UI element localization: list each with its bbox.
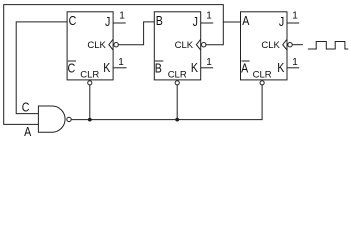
flip-flop A CLR bubble [260, 81, 264, 85]
wire B clock from A-output rail down to B CLK bubble [206, 22, 223, 45]
clock input square wave symbol [308, 42, 348, 50]
svg-text:J: J [105, 14, 110, 29]
flip-flop B CLK bubble [202, 43, 206, 47]
NAND gate body [38, 106, 65, 132]
wire C output to NAND input C [16, 22, 67, 114]
junction dot at B CLR [175, 118, 179, 122]
svg-text:1: 1 [206, 57, 212, 68]
svg-text:C: C [22, 100, 30, 115]
wire top rail from A output to NAND input A [4, 5, 241, 125]
wire J stub tied to 1 on flip-flop C [113, 22, 126, 24]
flip-flop B box [154, 12, 200, 80]
wire B CLR drop [176, 85, 178, 120]
overline of A-bar [241, 60, 249, 62]
flip-flop C CLR bubble [88, 81, 92, 85]
svg-text:A: A [24, 124, 31, 139]
wire clear line from NAND output to CLR bubbles [71, 85, 262, 120]
overline of C-bar [68, 60, 76, 62]
flip-flop A box [241, 12, 288, 80]
flip-flop C box [67, 12, 113, 80]
NAND gate output bubble [67, 117, 71, 121]
flip-flop A clock edge triangle [283, 39, 287, 50]
wire A CLK input stub [292, 44, 303, 46]
svg-text:C: C [69, 13, 77, 28]
svg-text:J: J [193, 14, 198, 29]
wire K stub tied to 1 on flip-flop A [287, 67, 299, 69]
svg-text:A: A [242, 13, 249, 28]
svg-text:CLK: CLK [87, 40, 106, 51]
svg-text:1: 1 [206, 11, 212, 22]
overline of B-bar [155, 60, 163, 62]
flip-flop C CLK bubble [114, 43, 118, 47]
wire J stub tied to 1 on flip-flop A [287, 22, 299, 24]
svg-text:CLR: CLR [168, 69, 187, 80]
svg-text:CLR: CLR [253, 69, 272, 80]
svg-text:1: 1 [119, 11, 125, 22]
svg-text:K: K [103, 60, 110, 75]
flip-flop A CLK bubble [288, 43, 292, 47]
svg-text:B: B [156, 13, 163, 28]
svg-text:A: A [241, 61, 248, 76]
svg-text:K: K [277, 60, 284, 75]
wire C CLR drop [89, 85, 91, 120]
flip-flop B clock edge triangle [196, 39, 200, 50]
svg-text:CLR: CLR [80, 69, 99, 80]
svg-text:1: 1 [292, 11, 298, 22]
svg-text:K: K [191, 60, 198, 75]
svg-text:CLK: CLK [261, 40, 280, 51]
wire K stub tied to 1 on flip-flop C [113, 67, 126, 69]
junction dot at C CLR [88, 118, 92, 122]
svg-text:1: 1 [118, 57, 124, 68]
svg-text:J: J [279, 14, 284, 29]
wire J stub tied to 1 on flip-flop B [201, 22, 214, 24]
svg-text:CLK: CLK [175, 40, 194, 51]
svg-text:C: C [68, 61, 76, 76]
wire B output down to C CLK bubble [118, 22, 154, 45]
flip-flop C clock edge triangle [109, 39, 113, 50]
wire K stub tied to 1 on flip-flop B [201, 67, 214, 69]
svg-text:1: 1 [292, 57, 298, 68]
flip-flop B CLR bubble [175, 81, 179, 85]
svg-text:B: B [155, 61, 162, 76]
